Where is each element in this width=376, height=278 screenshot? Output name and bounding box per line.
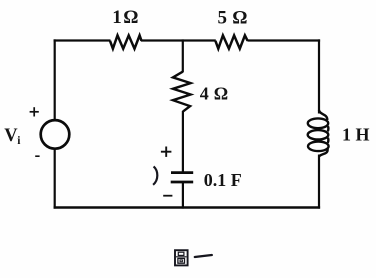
minus sign capacitor	[163, 195, 172, 197]
wire right lower	[318, 155, 320, 209]
label 1 ohm	[112, 7, 138, 28]
wire middle lower	[182, 182, 184, 209]
stray parenthesis mark	[153, 166, 157, 184]
source Vi circle	[41, 120, 70, 149]
minus sign source	[35, 155, 39, 157]
label 5 ohm	[218, 7, 248, 28]
svg-text:Ω: Ω	[214, 83, 228, 103]
plus sign source	[30, 107, 39, 116]
capacitor bottom plate	[171, 181, 194, 184]
svg-text:Ω: Ω	[123, 7, 138, 28]
label 0.1 F	[204, 170, 242, 190]
svg-text:V: V	[4, 126, 18, 146]
plus sign capacitor	[161, 147, 172, 157]
wire top-middle segment	[141, 39, 216, 41]
wire left upper	[54, 39, 56, 120]
svg-text:i: i	[17, 135, 21, 147]
wire middle upper	[182, 39, 184, 72]
resistor 1 ohm	[110, 35, 142, 48]
label Vi	[4, 126, 21, 147]
wire left lower	[54, 149, 56, 209]
svg-text:4: 4	[200, 83, 209, 103]
wire top-left segment	[54, 39, 111, 41]
wire middle between resistor and capacitor	[182, 111, 184, 172]
resistor 4 ohm	[173, 72, 191, 112]
wire top-right segment	[247, 39, 320, 41]
wire right upper	[318, 39, 320, 113]
svg-text:5: 5	[218, 7, 228, 28]
svg-text:Ω: Ω	[232, 7, 247, 28]
svg-text:1 H: 1 H	[342, 125, 370, 145]
wire bottom	[54, 206, 321, 208]
capacitor top plate	[171, 171, 193, 174]
svg-text:0.1 F: 0.1 F	[204, 170, 242, 190]
caption figure one glyph tu	[175, 250, 188, 265]
label 4 ohm	[200, 83, 228, 103]
label 1 H	[342, 125, 370, 145]
svg-text:1: 1	[112, 7, 122, 28]
caption figure one glyph yi	[195, 255, 212, 257]
inductor 1 H coil	[308, 110, 329, 157]
resistor 5 ohm	[215, 35, 247, 48]
